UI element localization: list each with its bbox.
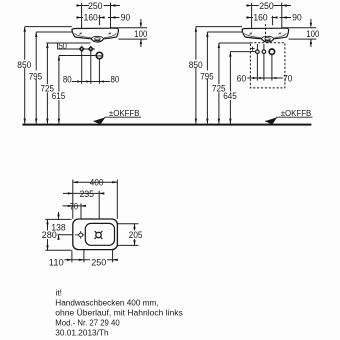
svg-text:795: 795 [29, 71, 43, 81]
svg-text:80: 80 [63, 74, 72, 84]
svg-text:160: 160 [253, 13, 267, 23]
svg-text:30.01.2013/Th: 30.01.2013/Th [55, 329, 108, 338]
svg-text:110: 110 [49, 257, 64, 267]
svg-text:70: 70 [70, 201, 78, 211]
svg-text:90: 90 [121, 13, 130, 23]
svg-text:160: 160 [84, 13, 98, 23]
svg-text:50: 50 [59, 41, 67, 51]
svg-text:250: 250 [88, 1, 103, 11]
svg-text:205: 205 [129, 230, 143, 240]
svg-text:235: 235 [80, 189, 94, 199]
svg-text:90: 90 [292, 13, 301, 23]
svg-text:250: 250 [91, 257, 106, 267]
svg-text:±OKFFB: ±OKFFB [109, 108, 140, 118]
svg-text:250: 250 [259, 1, 274, 11]
svg-text:645: 645 [223, 91, 237, 101]
svg-text:Handwaschbecken 400 mm,: Handwaschbecken 400 mm, [55, 299, 158, 308]
svg-text:it!: it! [56, 289, 62, 298]
svg-text:100: 100 [134, 29, 147, 39]
svg-text:850: 850 [189, 60, 203, 70]
svg-text:400: 400 [90, 177, 104, 187]
svg-text:850: 850 [17, 60, 31, 70]
svg-text:±OKFFB: ±OKFFB [281, 108, 312, 118]
svg-text:100: 100 [306, 29, 319, 39]
svg-text:ohne Überlauf, mit Hahnloch li: ohne Überlauf, mit Hahnloch links [55, 309, 183, 318]
svg-text:615: 615 [52, 91, 66, 101]
svg-text:Mod.- Nr. 27 29 40: Mod.- Nr. 27 29 40 [55, 319, 120, 328]
svg-text:80: 80 [111, 74, 120, 84]
svg-text:70: 70 [283, 74, 292, 84]
svg-text:280: 280 [42, 230, 57, 240]
svg-text:60: 60 [237, 74, 246, 84]
svg-text:795: 795 [200, 71, 214, 81]
